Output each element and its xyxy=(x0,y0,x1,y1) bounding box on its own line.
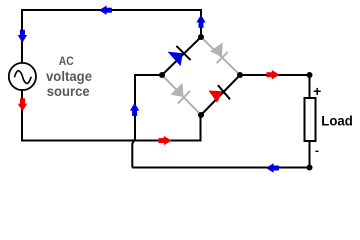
wire: top rail from AC source top to bridge top branch xyxy=(22,9,201,11)
junction: bridge left node xyxy=(159,72,165,78)
load resistor (box) xyxy=(305,98,316,141)
wire: bottom rail from jog wire to load bottom xyxy=(132,167,309,169)
current arrow: blue up on left branch wire xyxy=(130,103,139,116)
diode D3 (non-conducting, gray triangle, left node toward bottom node) xyxy=(171,83,191,104)
junction: bridge right node xyxy=(237,72,243,78)
svg-text:Load: Load xyxy=(321,114,353,129)
diode D1 (conducting, blue triangle, anode at left node, cathode toward top node) xyxy=(168,46,191,66)
current arrow: red right from right node to load xyxy=(267,70,280,79)
current arrow: blue left on top rail xyxy=(99,6,112,15)
wire: vertical from top rail down to bridge top node xyxy=(200,9,202,37)
diode D4 (conducting, red triangle, bottom node toward right node) xyxy=(209,85,231,103)
current arrow: red down out of AC source bottom xyxy=(18,98,27,111)
wire: bridge edge left node to top node (conducting) xyxy=(162,37,201,75)
wire: left vertical from top rail down to AC source top terminal xyxy=(21,9,23,64)
junction: bridge bottom node xyxy=(198,112,204,118)
svg-text:AC: AC xyxy=(59,54,74,68)
svg-text:source: source xyxy=(47,83,90,99)
current arrow: blue left on bottom rail back from load xyxy=(266,163,279,172)
junction: bridge top node xyxy=(198,34,204,40)
current arrow: red right on bottom-mid rail xyxy=(159,136,172,145)
svg-text:-: - xyxy=(315,144,319,158)
wire: riser from bottom-mid rail up to bridge bottom node xyxy=(200,115,202,142)
diode D3 bottom-left gray wire (non-conducting edge left node to bottom node) xyxy=(162,75,201,115)
junction: load top corner xyxy=(307,72,313,78)
wire: from AC source bottom terminal down to bottom-left corner xyxy=(22,89,201,142)
diode D2 top-right gray wire (non-conducting edge top node to right node) xyxy=(201,37,240,75)
current arrow: blue up above bridge top node xyxy=(196,15,205,28)
wire: bridge edge bottom node to right node (conducting) xyxy=(201,75,240,115)
diode D2 (non-conducting, gray triangle, top node toward right node) xyxy=(210,43,228,64)
svg-text:voltage: voltage xyxy=(46,68,92,84)
current arrow: blue down into AC source top xyxy=(18,30,27,43)
label: AC voltage source text xyxy=(46,54,92,99)
AC voltage source V1 (circle with sine) xyxy=(9,63,36,90)
wire: right node to load top corner xyxy=(240,75,310,98)
wire: load bottom to bottom rail xyxy=(309,141,311,168)
svg-text:+: + xyxy=(313,83,321,99)
wire: left node branch going left then down with crossover jog xyxy=(132,75,162,168)
junction: load bottom corner xyxy=(307,165,313,171)
